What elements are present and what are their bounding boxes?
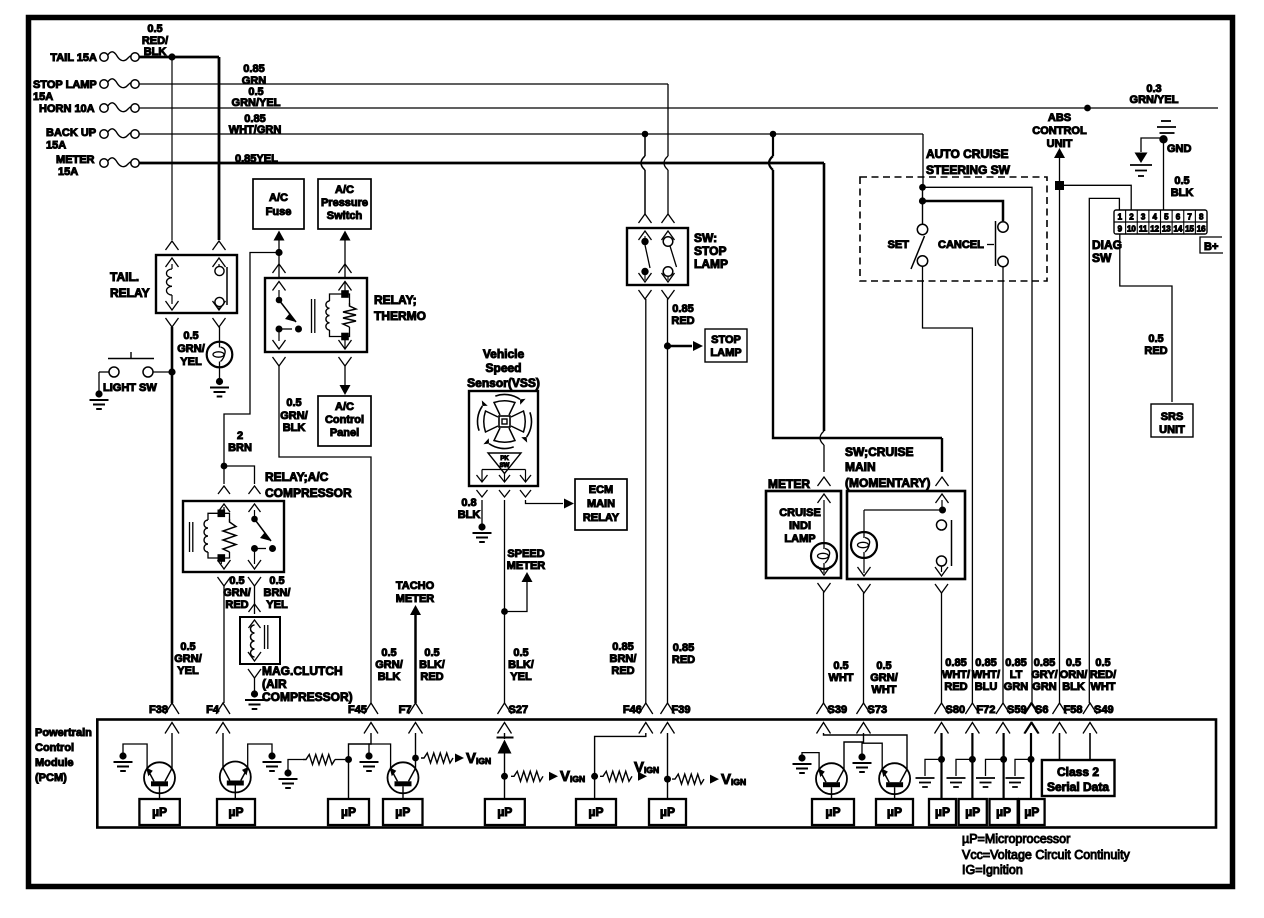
svg-text:GRN: GRN <box>1004 681 1029 693</box>
svg-text:BLK: BLK <box>1062 681 1085 693</box>
svg-text:RED: RED <box>671 315 694 327</box>
svg-text:0.5: 0.5 <box>269 575 284 587</box>
svg-text:F39: F39 <box>672 704 691 716</box>
svg-text:0.5: 0.5 <box>381 647 396 659</box>
svg-text:0.5: 0.5 <box>1066 657 1081 669</box>
svg-text:µP: µP <box>341 805 356 819</box>
svg-text:SPEED: SPEED <box>507 548 544 560</box>
svg-text:S39: S39 <box>828 704 848 716</box>
svg-text:F58: F58 <box>1064 704 1083 716</box>
svg-text:Vcc=Voltage Circuit Continuity: Vcc=Voltage Circuit Continuity <box>962 848 1131 862</box>
svg-text:15A: 15A <box>33 91 53 103</box>
svg-text:µP: µP <box>935 805 950 819</box>
svg-text:0.5: 0.5 <box>1095 657 1110 669</box>
svg-text:11: 11 <box>1139 225 1148 234</box>
svg-text:4: 4 <box>1152 213 1157 222</box>
svg-text:METER: METER <box>56 154 95 166</box>
svg-text:0.5: 0.5 <box>424 647 439 659</box>
svg-text:0.5: 0.5 <box>183 330 198 342</box>
svg-text:SET: SET <box>888 239 910 251</box>
svg-text:S27: S27 <box>509 704 529 716</box>
svg-text:INDI: INDI <box>789 520 811 532</box>
svg-text:Class 2: Class 2 <box>1057 765 1099 779</box>
svg-text:BACK UP: BACK UP <box>46 127 96 139</box>
svg-text:0.85: 0.85 <box>672 303 693 315</box>
svg-text:WHT/: WHT/ <box>972 669 1000 681</box>
svg-text:µP: µP <box>965 805 980 819</box>
svg-text:LT: LT <box>1010 669 1023 681</box>
svg-text:WHT: WHT <box>1090 681 1115 693</box>
svg-text:MAIN: MAIN <box>845 460 876 474</box>
svg-text:LIGHT SW: LIGHT SW <box>103 382 157 394</box>
svg-text:2: 2 <box>1129 213 1134 222</box>
svg-text:Control: Control <box>35 742 74 754</box>
svg-text:GRN/YEL: GRN/YEL <box>232 97 281 109</box>
svg-text:Vehicle: Vehicle <box>483 347 525 361</box>
svg-text:BLK: BLK <box>378 671 401 683</box>
svg-text:BLK: BLK <box>1171 187 1194 199</box>
svg-text:COMPRESSOR): COMPRESSOR) <box>262 690 353 704</box>
svg-text:µP: µP <box>996 805 1011 819</box>
svg-text:µP: µP <box>395 805 410 819</box>
svg-text:RED: RED <box>225 599 248 611</box>
svg-text:HORN 10A: HORN 10A <box>39 103 95 115</box>
svg-text:B+: B+ <box>1204 241 1218 253</box>
svg-text:3: 3 <box>1141 213 1146 222</box>
svg-text:15: 15 <box>1185 225 1194 234</box>
svg-text:RED: RED <box>944 681 967 693</box>
svg-text:YEL: YEL <box>510 671 532 683</box>
svg-text:A/C: A/C <box>269 192 288 204</box>
svg-text:Fuse: Fuse <box>266 206 292 218</box>
svg-text:GRN/: GRN/ <box>174 653 202 665</box>
svg-text:Switch: Switch <box>327 210 363 222</box>
svg-text:0.5: 0.5 <box>833 660 848 672</box>
svg-text:Sensor(VSS): Sensor(VSS) <box>467 376 540 390</box>
svg-text:THERMO: THERMO <box>374 309 426 323</box>
svg-text:TAIL 15A: TAIL 15A <box>50 52 97 64</box>
svg-text:(PCM): (PCM) <box>35 772 67 784</box>
svg-text:STEERING SW: STEERING SW <box>926 163 1011 177</box>
svg-text:ECM: ECM <box>589 484 613 496</box>
svg-text:Pressure: Pressure <box>321 197 368 209</box>
svg-text:SW: SW <box>1092 251 1112 265</box>
svg-text:RED/: RED/ <box>1090 669 1116 681</box>
svg-text:METER: METER <box>396 593 435 605</box>
svg-text:WHT/: WHT/ <box>942 669 970 681</box>
svg-text:SRS: SRS <box>1161 411 1184 423</box>
svg-text:F7: F7 <box>399 704 412 716</box>
svg-text:13: 13 <box>1162 225 1171 234</box>
svg-text:µP=Microprocessor: µP=Microprocessor <box>962 832 1070 846</box>
svg-text:µP: µP <box>826 805 841 819</box>
svg-text:0.85: 0.85 <box>1005 657 1026 669</box>
svg-text:BLK/: BLK/ <box>419 659 445 671</box>
svg-text:0.8: 0.8 <box>461 497 476 509</box>
svg-text:16: 16 <box>1197 225 1206 234</box>
svg-text:8: 8 <box>1199 213 1204 222</box>
svg-text:GRN/: GRN/ <box>223 587 251 599</box>
svg-text:BLU: BLU <box>975 681 998 693</box>
svg-text:BLK/: BLK/ <box>508 659 534 671</box>
svg-text:F46: F46 <box>623 704 642 716</box>
svg-text:COMPRESSOR: COMPRESSOR <box>265 486 352 500</box>
svg-text:F45: F45 <box>348 704 367 716</box>
svg-text:µP: µP <box>497 805 512 819</box>
svg-text:(MOMENTARY): (MOMENTARY) <box>845 476 930 490</box>
svg-text:µP: µP <box>229 805 244 819</box>
svg-text:RED: RED <box>420 671 443 683</box>
svg-text:Serial Data: Serial Data <box>1047 780 1109 794</box>
svg-text:BLK: BLK <box>283 422 306 434</box>
svg-text:METER: METER <box>768 477 810 491</box>
svg-text:YEL: YEL <box>177 665 199 677</box>
svg-text:BRN/: BRN/ <box>264 587 291 599</box>
svg-text:YEL: YEL <box>180 356 202 368</box>
svg-text:µP: µP <box>152 805 167 819</box>
svg-text:ORN/: ORN/ <box>1060 669 1088 681</box>
svg-text:15A: 15A <box>58 166 78 178</box>
svg-text:F4: F4 <box>206 704 220 716</box>
svg-text:0.5: 0.5 <box>286 397 301 409</box>
svg-text:GRN/: GRN/ <box>177 343 205 355</box>
svg-text:SW: SW <box>500 463 510 469</box>
svg-text:UNIT: UNIT <box>1159 424 1185 436</box>
svg-text:10: 10 <box>1127 225 1136 234</box>
svg-text:GRN: GRN <box>1032 681 1057 693</box>
svg-text:0.85: 0.85 <box>945 657 966 669</box>
svg-text:GRN/: GRN/ <box>375 659 403 671</box>
svg-text:Module: Module <box>35 757 74 769</box>
svg-text:RED: RED <box>1144 345 1167 357</box>
svg-text:MAIN: MAIN <box>587 498 615 510</box>
svg-text:RED: RED <box>611 665 634 677</box>
svg-text:CONTROL: CONTROL <box>1032 125 1087 137</box>
svg-text:Speed: Speed <box>485 361 521 375</box>
svg-text:SW:: SW: <box>694 231 717 245</box>
svg-text:F72: F72 <box>976 704 995 716</box>
svg-text:DIAG: DIAG <box>1092 238 1122 252</box>
svg-text:0.85: 0.85 <box>612 641 633 653</box>
svg-text:0.85: 0.85 <box>243 63 264 75</box>
svg-text:0.5: 0.5 <box>180 641 195 653</box>
svg-text:TAIL.: TAIL. <box>110 270 139 284</box>
svg-text:6: 6 <box>1176 213 1181 222</box>
svg-text:METER: METER <box>507 560 546 572</box>
svg-text:BRN/: BRN/ <box>610 653 637 665</box>
svg-text:GND: GND <box>1167 143 1192 155</box>
svg-text:Control: Control <box>325 414 364 426</box>
svg-text:0.85: 0.85 <box>1034 657 1055 669</box>
svg-text:1: 1 <box>1118 213 1123 222</box>
svg-text:IG=Ignition: IG=Ignition <box>962 863 1023 877</box>
svg-text:µP: µP <box>1024 805 1039 819</box>
svg-text:S59: S59 <box>1007 704 1027 716</box>
svg-text:S80: S80 <box>946 704 966 716</box>
svg-text:CANCEL: CANCEL <box>938 239 984 251</box>
svg-text:LAMP: LAMP <box>784 533 815 545</box>
svg-text:A/C: A/C <box>335 184 354 196</box>
svg-text:µP: µP <box>660 805 675 819</box>
svg-text:PK: PK <box>500 456 509 462</box>
svg-text:LAMP: LAMP <box>710 347 741 359</box>
svg-text:RELAY: RELAY <box>583 512 620 524</box>
svg-text:AUTO CRUISE: AUTO CRUISE <box>926 147 1008 161</box>
svg-text:WHT: WHT <box>871 684 896 696</box>
svg-text:TACHO: TACHO <box>396 580 435 592</box>
svg-text:STOP LAMP: STOP LAMP <box>33 79 97 91</box>
svg-text:0.85: 0.85 <box>975 657 996 669</box>
svg-text:Powertrain: Powertrain <box>35 727 92 739</box>
svg-text:9: 9 <box>1118 225 1123 234</box>
svg-text:0.5: 0.5 <box>147 23 162 35</box>
svg-text:15A: 15A <box>46 140 66 152</box>
svg-text:RED: RED <box>672 654 695 666</box>
svg-text:(AIR: (AIR <box>262 677 287 691</box>
svg-text:CRUISE: CRUISE <box>779 507 821 519</box>
svg-text:F38: F38 <box>149 704 168 716</box>
svg-text:0.5: 0.5 <box>513 647 528 659</box>
svg-text:0.5: 0.5 <box>229 575 244 587</box>
svg-text:GRN/: GRN/ <box>280 410 308 422</box>
svg-text:GRN/: GRN/ <box>870 672 898 684</box>
svg-text:YEL: YEL <box>266 599 288 611</box>
svg-text:0.5: 0.5 <box>876 660 891 672</box>
svg-text:S73: S73 <box>868 704 888 716</box>
svg-text:MAG.CLUTCH: MAG.CLUTCH <box>262 664 343 678</box>
svg-text:14: 14 <box>1173 225 1182 234</box>
svg-text:2: 2 <box>237 430 243 442</box>
svg-text:WHT: WHT <box>828 672 853 684</box>
svg-text:µP: µP <box>589 805 604 819</box>
svg-text:RELAY: RELAY <box>110 286 150 300</box>
svg-text:RELAY;: RELAY; <box>374 293 417 307</box>
svg-text:µP: µP <box>887 805 902 819</box>
svg-text:STOP: STOP <box>711 334 741 346</box>
svg-text:S49: S49 <box>1094 704 1114 716</box>
svg-text:UNIT: UNIT <box>1047 138 1073 150</box>
svg-text:LAMP: LAMP <box>694 257 728 271</box>
svg-text:BRN: BRN <box>228 442 252 454</box>
svg-text:STOP: STOP <box>694 244 726 258</box>
svg-text:BLK: BLK <box>458 509 481 521</box>
svg-text:0.5: 0.5 <box>1148 333 1163 345</box>
svg-text:0.85: 0.85 <box>673 642 694 654</box>
svg-text:12: 12 <box>1150 225 1159 234</box>
svg-text:SW;CRUISE: SW;CRUISE <box>845 445 913 459</box>
svg-text:0.5: 0.5 <box>1174 175 1189 187</box>
svg-text:5: 5 <box>1164 213 1169 222</box>
svg-text:ABS: ABS <box>1048 112 1071 124</box>
svg-text:GRN/YEL: GRN/YEL <box>1130 94 1179 106</box>
svg-text:A/C: A/C <box>335 401 354 413</box>
svg-text:Panel: Panel <box>330 427 359 439</box>
svg-text:GRY/: GRY/ <box>1031 669 1058 681</box>
svg-text:RELAY;A/C: RELAY;A/C <box>265 470 329 484</box>
svg-text:7: 7 <box>1187 213 1192 222</box>
